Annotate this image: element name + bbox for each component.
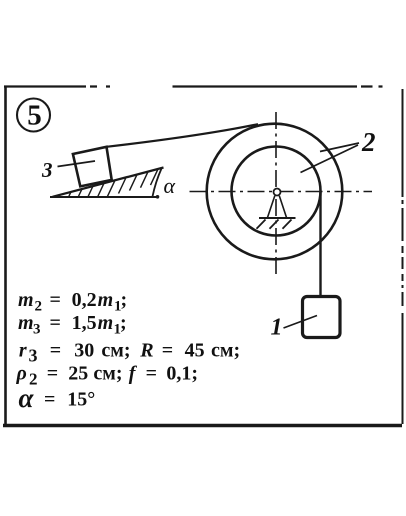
svg-text:3: 3 xyxy=(41,158,53,182)
block 3 on incline xyxy=(73,147,112,187)
svg-text:5: 5 xyxy=(27,100,42,132)
leader line for 3 xyxy=(58,161,96,167)
problem number circle 5 xyxy=(17,99,50,132)
svg-text:2: 2 xyxy=(361,127,376,157)
svg-text:α: α xyxy=(164,173,176,198)
horizontal centerline xyxy=(190,191,373,193)
leader line 2b to inner pulley xyxy=(301,145,359,173)
rope from pulley to block 1 xyxy=(319,191,321,297)
pulley outer circle R xyxy=(207,124,343,260)
vertical centerline xyxy=(275,112,277,274)
svg-text:1: 1 xyxy=(271,315,283,341)
incline surface line xyxy=(53,168,164,197)
incline base line xyxy=(50,196,159,198)
support legs xyxy=(268,196,287,218)
support hatching xyxy=(257,220,292,229)
base end tick xyxy=(156,195,160,199)
pivot pin xyxy=(274,189,281,196)
support ground line xyxy=(259,217,296,219)
rope from block 3 to pulley xyxy=(107,124,259,147)
block 1 (hanging load) xyxy=(303,297,341,338)
leader line 2a to outer rim xyxy=(320,143,359,152)
incline right closing cut xyxy=(153,169,162,197)
leader line for 1 xyxy=(284,316,318,329)
incline hatching xyxy=(59,169,158,196)
pulley inner circle r xyxy=(232,147,321,236)
